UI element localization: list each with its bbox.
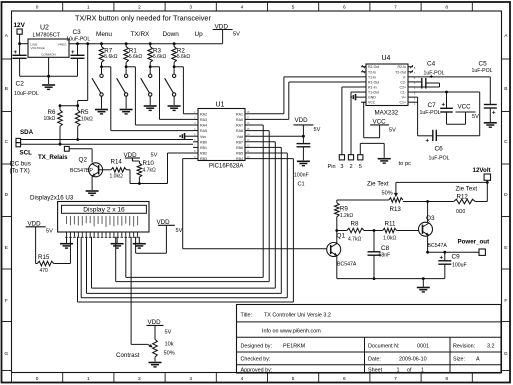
- svg-text:TX/RX button only needed for T: TX/RX button only needed for Transceiver: [75, 14, 211, 23]
- svg-text:12V: 12V: [14, 22, 26, 29]
- svg-text:F: F: [504, 298, 507, 304]
- svg-text:0Ω0: 0Ω0: [456, 209, 466, 215]
- svg-text:C1+: C1+: [399, 101, 406, 105]
- svg-text:C6: C6: [435, 145, 444, 152]
- svg-text:10uF-POL: 10uF-POL: [66, 37, 90, 43]
- svg-text:C9: C9: [452, 253, 461, 260]
- svg-text:5V: 5V: [151, 153, 158, 159]
- svg-text:2: 2: [138, 376, 141, 382]
- svg-text:3.2: 3.2: [487, 344, 495, 350]
- svg-text:10kΩ: 10kΩ: [81, 117, 93, 123]
- svg-text:T2-In: T2-In: [368, 70, 376, 74]
- svg-text:5: 5: [292, 5, 295, 11]
- svg-text:Sheet: Sheet: [368, 367, 383, 373]
- svg-text:5V: 5V: [46, 228, 53, 234]
- svg-text:1uF-POL: 1uF-POL: [420, 110, 441, 116]
- svg-text:Q1: Q1: [337, 233, 346, 240]
- svg-text:+: +: [71, 50, 75, 56]
- svg-text:Down: Down: [163, 31, 180, 38]
- svg-text:4: 4: [241, 376, 244, 382]
- svg-text:R9: R9: [340, 206, 348, 213]
- svg-text:U4: U4: [382, 55, 391, 62]
- svg-text:MAX232: MAX232: [375, 110, 399, 117]
- svg-text:+: +: [492, 111, 496, 117]
- svg-text:6: 6: [343, 5, 346, 11]
- svg-text:B: B: [504, 86, 507, 92]
- svg-text:Menu: Menu: [96, 31, 112, 38]
- svg-text:RA3: RA3: [200, 118, 207, 122]
- svg-text:U2: U2: [40, 25, 49, 32]
- svg-text:C5: C5: [479, 61, 488, 68]
- svg-text:R10: R10: [143, 160, 155, 167]
- svg-text:T2-Out: T2-Out: [395, 70, 406, 74]
- svg-text:SCL: SCL: [20, 150, 33, 157]
- svg-text:C2+: C2+: [399, 85, 406, 89]
- svg-text:D: D: [5, 192, 9, 198]
- svg-text:R2-In: R2-In: [397, 65, 406, 69]
- svg-text:7: 7: [394, 376, 397, 382]
- svg-text:C2-: C2-: [400, 80, 406, 84]
- svg-text:5V: 5V: [314, 127, 321, 133]
- svg-text:7: 7: [394, 5, 397, 11]
- svg-text:Zie Text: Zie Text: [367, 181, 389, 188]
- svg-text:SDA: SDA: [20, 129, 34, 136]
- svg-text:C1-: C1-: [400, 91, 406, 95]
- svg-text:0: 0: [36, 5, 39, 11]
- svg-text:1.0kΩ: 1.0kΩ: [110, 173, 123, 179]
- svg-text:RB0: RB0: [200, 140, 207, 144]
- svg-text:V+: V+: [402, 96, 406, 100]
- svg-text:2: 2: [349, 164, 352, 170]
- svg-text:6: 6: [343, 376, 346, 382]
- svg-text:Up: Up: [195, 31, 204, 38]
- svg-text:+: +: [426, 139, 430, 145]
- svg-text:1: 1: [87, 376, 90, 382]
- svg-text:COMMON: COMMON: [41, 53, 55, 57]
- svg-text:VCC: VCC: [373, 118, 387, 125]
- svg-text:RA0: RA0: [236, 118, 243, 122]
- svg-text:VCC: VCC: [458, 104, 472, 111]
- svg-text:470: 470: [40, 268, 49, 274]
- svg-text:T1-In: T1-In: [368, 75, 376, 79]
- svg-text:RB6: RB6: [236, 146, 243, 150]
- svg-text:Power_out: Power_out: [458, 238, 490, 245]
- svg-text:R15: R15: [38, 254, 50, 261]
- svg-text:RB3: RB3: [200, 157, 207, 161]
- svg-text:10k: 10k: [165, 342, 174, 348]
- svg-text:(To TX): (To TX): [10, 167, 30, 174]
- svg-text:Revision:: Revision:: [453, 344, 475, 350]
- svg-text:G: G: [4, 351, 8, 357]
- svg-text:R6: R6: [48, 109, 56, 116]
- svg-text:RA1: RA1: [236, 112, 243, 116]
- svg-text:1: 1: [421, 367, 424, 373]
- svg-text:100uF: 100uF: [452, 262, 467, 268]
- svg-text:PIC16F628A: PIC16F628A: [209, 163, 243, 169]
- svg-text:A: A: [476, 357, 480, 363]
- svg-text:C7: C7: [428, 102, 437, 109]
- svg-text:I2C bus: I2C bus: [10, 160, 31, 167]
- svg-text:VCC: VCC: [368, 101, 376, 105]
- svg-text:Title:: Title:: [241, 312, 252, 318]
- svg-text:Display 2 x 16: Display 2 x 16: [83, 207, 125, 214]
- svg-text:1: 1: [397, 367, 400, 373]
- svg-text:1uF-POL: 1uF-POL: [429, 155, 450, 161]
- svg-text:0001: 0001: [417, 344, 429, 350]
- svg-text:R2-Out: R2-Out: [368, 65, 379, 69]
- svg-text:Vss: Vss: [200, 135, 206, 139]
- svg-text:RB7: RB7: [236, 140, 243, 144]
- svg-text:12Volt: 12Volt: [473, 167, 491, 174]
- svg-text:BC547BP: BC547BP: [70, 168, 93, 174]
- svg-text:1.2kΩ: 1.2kΩ: [340, 213, 353, 219]
- svg-text:VREG: VREG: [58, 43, 67, 47]
- svg-text:G: G: [504, 351, 508, 357]
- svg-text:5V: 5V: [233, 32, 240, 38]
- svg-text:+: +: [14, 50, 18, 56]
- svg-text:5V: 5V: [389, 127, 396, 133]
- svg-text:RA4: RA4: [200, 124, 207, 128]
- svg-text:10uF-POL: 10uF-POL: [14, 91, 39, 97]
- svg-text:4.7kΩ: 4.7kΩ: [143, 168, 156, 174]
- svg-text:C2: C2: [16, 81, 25, 88]
- svg-text:VDD: VDD: [148, 319, 162, 326]
- svg-text:E: E: [504, 245, 507, 251]
- svg-text:E: E: [5, 245, 8, 251]
- svg-text:PE1RKM: PE1RKM: [283, 344, 306, 350]
- svg-text:VDD: VDD: [124, 152, 138, 159]
- svg-text:2009-06-10: 2009-06-10: [399, 357, 427, 363]
- svg-text:2: 2: [138, 5, 141, 11]
- svg-text:C: C: [5, 139, 9, 145]
- svg-text:Q2: Q2: [79, 156, 88, 163]
- svg-text:Size:: Size:: [453, 357, 465, 363]
- svg-text:50%: 50%: [164, 350, 175, 356]
- svg-text:TX/RX: TX/RX: [131, 31, 151, 38]
- svg-text:U1: U1: [216, 102, 225, 109]
- svg-text:C4: C4: [427, 61, 436, 68]
- svg-text:to pc: to pc: [399, 161, 412, 167]
- svg-text:1uF-POL: 1uF-POL: [472, 68, 493, 74]
- svg-text:C3: C3: [73, 29, 82, 36]
- svg-text:10kΩ: 10kΩ: [44, 116, 56, 122]
- svg-text:F: F: [5, 298, 8, 304]
- svg-text:5.6kΩ: 5.6kΩ: [129, 54, 142, 60]
- svg-text:4: 4: [241, 5, 244, 11]
- svg-text:50%: 50%: [382, 190, 393, 196]
- svg-text:+: +: [440, 255, 444, 261]
- svg-text:Zie Text: Zie Text: [456, 186, 478, 193]
- svg-text:RB5: RB5: [236, 152, 243, 156]
- svg-text:RA6: RA6: [236, 129, 243, 133]
- svg-text:1: 1: [87, 5, 90, 11]
- svg-text:3: 3: [189, 376, 192, 382]
- svg-text:TX_Relais: TX_Relais: [38, 154, 68, 161]
- svg-text:100nF: 100nF: [294, 173, 309, 179]
- svg-text:RB4: RB4: [236, 157, 243, 161]
- svg-text:D: D: [504, 192, 508, 198]
- svg-text:R1-In: R1-In: [368, 85, 377, 89]
- svg-text:1.0kΩ: 1.0kΩ: [383, 236, 396, 242]
- svg-text:Contrast: Contrast: [116, 352, 140, 359]
- svg-text:R11: R11: [385, 221, 396, 228]
- svg-text:5.6kΩ: 5.6kΩ: [153, 54, 166, 60]
- svg-text:3: 3: [340, 164, 343, 170]
- svg-text:8: 8: [445, 5, 448, 11]
- svg-text:+: +: [442, 103, 446, 109]
- svg-text:Date:: Date:: [368, 357, 381, 363]
- svg-text:R8: R8: [351, 221, 359, 228]
- svg-text:RA7: RA7: [236, 124, 243, 128]
- svg-text:5V: 5V: [472, 114, 479, 120]
- svg-text:5.6kΩ: 5.6kΩ: [177, 54, 190, 60]
- svg-text:RB1: RB1: [200, 146, 207, 150]
- svg-text:Pin: Pin: [328, 164, 336, 170]
- svg-text:RA5: RA5: [200, 129, 207, 133]
- svg-text:5: 5: [359, 164, 362, 170]
- svg-text:VDD: VDD: [28, 220, 42, 227]
- svg-text:R14: R14: [111, 158, 123, 165]
- svg-text:Designed by:: Designed by:: [241, 344, 272, 350]
- svg-text:VDD: VDD: [295, 117, 309, 124]
- svg-text:LM7805CT: LM7805CT: [33, 33, 61, 39]
- svg-text:TX Controller Uni Versie 3.2: TX Controller Uni Versie 3.2: [264, 312, 331, 318]
- svg-text:C1: C1: [298, 182, 305, 188]
- svg-text:R1-Out: R1-Out: [368, 80, 379, 84]
- svg-text:Vdd: Vdd: [237, 135, 243, 139]
- svg-text:BC547A: BC547A: [337, 262, 357, 268]
- svg-text:B: B: [5, 86, 8, 92]
- svg-text:5.6kΩ: 5.6kΩ: [104, 54, 117, 60]
- svg-text:5V: 5V: [176, 228, 183, 234]
- svg-text:T1-Out: T1-Out: [368, 91, 379, 95]
- svg-text:BC547A: BC547A: [428, 243, 448, 249]
- svg-text:R12: R12: [457, 194, 469, 201]
- svg-text:R5: R5: [81, 109, 89, 116]
- svg-text:68nF: 68nF: [379, 253, 391, 259]
- svg-text:GND: GND: [368, 96, 376, 100]
- svg-text:R13: R13: [390, 206, 402, 213]
- svg-text:3: 3: [189, 5, 192, 11]
- svg-text:VDD: VDD: [157, 219, 171, 226]
- svg-text:8: 8: [445, 376, 448, 382]
- svg-text:Approved by:: Approved by:: [241, 367, 273, 373]
- svg-text:5: 5: [292, 376, 295, 382]
- svg-text:5V: 5V: [165, 329, 172, 335]
- svg-text:RB2: RB2: [200, 152, 207, 156]
- svg-text:of: of: [407, 367, 412, 373]
- svg-text:0: 0: [36, 376, 39, 382]
- svg-text:Display2x16 U3: Display2x16 U3: [30, 194, 74, 201]
- svg-text:Document N:: Document N:: [368, 344, 399, 350]
- svg-text:4.7kΩ: 4.7kΩ: [348, 236, 361, 242]
- svg-text:C8: C8: [381, 245, 390, 252]
- svg-text:RA2: RA2: [200, 112, 207, 116]
- svg-text:Checked by:: Checked by:: [241, 357, 271, 363]
- svg-text:VOLTAGE: VOLTAGE: [31, 46, 45, 50]
- svg-text:C: C: [504, 139, 508, 145]
- svg-text:1uF-POL: 1uF-POL: [424, 71, 445, 77]
- svg-text:Info on www.pi6enh.com: Info on www.pi6enh.com: [262, 329, 321, 335]
